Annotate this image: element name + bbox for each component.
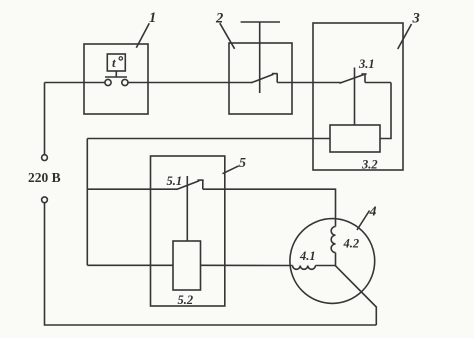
- winding 4.2 (3 bumps left): [331, 227, 335, 253]
- switch blade in box 2: [251, 74, 273, 83]
- motor 4 circle: [290, 219, 375, 304]
- wire: coil 5.2 to motor winding 4.1: [201, 264, 293, 266]
- pointer line label 1: [136, 23, 149, 48]
- pointer line label 2: [220, 23, 235, 49]
- wire: main top bus from left corner to box1 left contact: [45, 82, 105, 84]
- svg-text:3: 3: [412, 11, 420, 27]
- svg-text:220 В: 220 В: [28, 170, 61, 185]
- contact circle left: [105, 79, 111, 85]
- wire: 4.2 to star point: [335, 253, 337, 267]
- wire: down right side of box 3: [380, 83, 391, 139]
- pointer line label 5: [223, 166, 239, 174]
- button T-bar: [241, 21, 280, 23]
- svg-text:5: 5: [239, 156, 246, 171]
- box 5 (protection relay): [151, 156, 225, 306]
- wire: left feed into coil 3.2: [87, 138, 330, 140]
- svg-text:4: 4: [369, 205, 377, 220]
- switch drop 5.1: [202, 180, 204, 189]
- button stem: [259, 22, 261, 93]
- switch blade 3.1: [340, 75, 364, 84]
- thermostat sensor square t°: [107, 54, 125, 71]
- svg-text:4.2: 4.2: [343, 237, 360, 251]
- wire: outer loop left vertical: [86, 139, 88, 266]
- wire: box2 switch output to box3 blade pivot: [277, 82, 340, 84]
- switch blade 5.1: [177, 181, 200, 190]
- wire: left drop to supply terminal: [44, 83, 46, 155]
- svg-text:t: t: [112, 55, 116, 70]
- pointer line label 3: [398, 24, 412, 49]
- svg-text:5.2: 5.2: [178, 293, 194, 307]
- thermostat bar: [105, 76, 127, 78]
- svg-text:2: 2: [215, 10, 223, 26]
- svg-text:3.2: 3.2: [361, 158, 378, 172]
- thermostat stem: [115, 71, 117, 77]
- svg-text:1: 1: [149, 10, 156, 26]
- wire: left feed into coil 5.2: [87, 264, 173, 266]
- winding 4.1 (3 bumps down): [293, 266, 316, 270]
- wire: branch to switch 5.1: [87, 188, 177, 190]
- pointer line label 4: [357, 211, 370, 231]
- box 3 (starting relay): [313, 23, 403, 170]
- wire: lower supply down and along bottom: [45, 203, 377, 325]
- switch tick 3.1: [361, 73, 366, 75]
- switch drop box 2: [276, 74, 278, 83]
- svg-text:3.1: 3.1: [358, 57, 375, 71]
- svg-text:5.1: 5.1: [167, 174, 183, 188]
- wire: 4.1 to star point: [315, 265, 335, 267]
- wire: contact post 5.1 to coil 5.2: [186, 176, 188, 241]
- wire: contact post 3.1 to coil 3.2: [354, 68, 356, 126]
- wire: box1 contacts to box2 blade pivot: [128, 82, 252, 84]
- wire: bottom riser to motor star point: [336, 266, 377, 325]
- svg-text:4.1: 4.1: [299, 249, 316, 263]
- terminal circle top: [42, 155, 48, 161]
- terminal circle bottom: [42, 197, 48, 203]
- contact circle right: [122, 79, 128, 85]
- wire: 5.1 output to motor winding 4.2: [203, 189, 336, 226]
- switch drop 3.1: [364, 74, 366, 83]
- box 1 (thermostat): [84, 44, 148, 114]
- wire: 3.1 output right: [365, 82, 391, 84]
- switch tick box 2: [272, 73, 278, 75]
- switch tick 5.1: [197, 179, 203, 181]
- coil 5.2 rectangle: [173, 241, 201, 290]
- coil 3.2 rectangle: [330, 125, 380, 152]
- box 2 (push button): [229, 43, 292, 114]
